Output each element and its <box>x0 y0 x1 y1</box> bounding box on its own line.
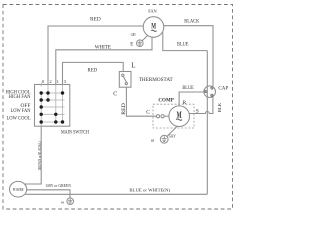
svg-text:GRY: GRY <box>131 33 136 37</box>
svg-text:E: E <box>150 139 155 142</box>
svg-text:BLUE or WHITE(N): BLUE or WHITE(N) <box>129 188 170 193</box>
svg-text:LOW FAN: LOW FAN <box>11 109 31 114</box>
overload protector <box>156 115 159 118</box>
earth symbol E at fan <box>142 35 147 40</box>
svg-text:CAP: CAP <box>218 85 228 91</box>
fan motor FAN <box>143 17 164 38</box>
svg-text:L: L <box>131 61 135 69</box>
wire BLUE (fan to N riser) <box>163 32 208 50</box>
capacitor CAP <box>204 86 216 98</box>
svg-text:COMP: COMP <box>158 98 173 103</box>
wire BLACK (fan to cap) <box>164 26 213 87</box>
wire S with hop to cap <box>189 96 213 114</box>
svg-text:BROWN or BLACK(L): BROWN or BLACK(L) <box>38 140 42 170</box>
comp earth diagonal <box>167 126 177 136</box>
svg-text:THERMOSTAT: THERMOSTAT <box>139 77 173 83</box>
compressor dashed box <box>153 104 194 128</box>
svg-text:M: M <box>151 22 156 31</box>
svg-text:R: R <box>183 100 187 106</box>
main switch position labels <box>6 91 32 122</box>
wire RED (thermostat to comp C) <box>126 87 156 116</box>
svg-text:POWER: POWER <box>13 187 24 192</box>
wire N (power to right riser) <box>26 193 208 195</box>
svg-text:GRY: GRY <box>169 134 176 138</box>
svg-text:GRY or GREEN: GRY or GREEN <box>46 183 71 188</box>
svg-text:BLK: BLK <box>217 102 222 112</box>
main switch contact dots <box>40 91 65 123</box>
thermostat <box>119 72 131 88</box>
svg-text:FAN: FAN <box>148 8 157 13</box>
main switch terminal numbers <box>42 79 67 84</box>
svg-text:C: C <box>146 110 150 116</box>
svg-text:E: E <box>130 43 133 48</box>
wire L (power to main switch) <box>25 126 41 184</box>
compressor motor <box>169 106 190 127</box>
svg-text:RED: RED <box>90 17 101 23</box>
earth symbol E at comp <box>160 135 168 143</box>
power plug POWER <box>10 181 27 197</box>
wire RED (switch 2 to fan) <box>48 26 143 85</box>
svg-text:WHITE: WHITE <box>95 45 111 50</box>
cap terminals <box>205 87 213 97</box>
svg-text:C: C <box>113 92 117 98</box>
wire WHITE (switch 1 to fan common) <box>56 37 152 84</box>
svg-text:BLUE: BLUE <box>182 86 193 91</box>
main switch box <box>35 85 70 127</box>
wire comp C stub <box>164 115 169 117</box>
earth symbol bottom <box>67 198 74 205</box>
svg-text:MAIN SWITCH: MAIN SWITCH <box>61 130 89 135</box>
svg-text:RED: RED <box>122 103 127 115</box>
svg-text:LOW COOL: LOW COOL <box>7 117 31 122</box>
main switch column lines <box>41 83 62 127</box>
wire RED (switch 3 to thermostat) <box>63 62 124 84</box>
svg-text:BLACK: BLACK <box>184 19 199 24</box>
border frame <box>3 5 233 210</box>
svg-text:BLUE: BLUE <box>177 42 188 47</box>
wire GRY or GREEN (power to earth) <box>27 190 70 198</box>
wire BLUE (comp R to cap) <box>179 92 205 106</box>
svg-text:E: E <box>60 201 65 204</box>
svg-text:HIGH FAN: HIGH FAN <box>9 95 32 100</box>
N riser wire (fan/N bottom to top, passes cap) <box>206 51 208 195</box>
svg-text:RED: RED <box>88 68 98 74</box>
main switch row lines <box>41 93 64 122</box>
